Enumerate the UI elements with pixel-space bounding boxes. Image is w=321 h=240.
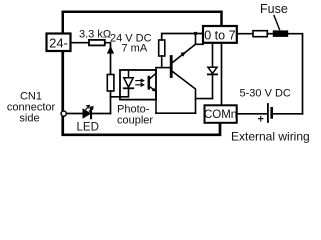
fuse pointer line (274, 16, 280, 30)
wire: 0to7 box to COMn box (221, 43, 223, 105)
svg-text:+: + (258, 114, 264, 126)
wire: 24- box to resistor (71, 42, 90, 44)
wire: fuse to right edge and down (288, 34, 302, 114)
svg-text:0 to 7: 0 to 7 (204, 28, 235, 42)
wire: module frame left vertical, bottom rail, rise to COMn box (63, 51, 220, 135)
transistor emitter diagonal to top rail (173, 44, 196, 62)
LED emission arrows (86, 105, 90, 109)
resistor R 3.3k body (89, 40, 105, 46)
photocoupler box (120, 70, 156, 100)
wire: below internal resistor down to LED row (110, 91, 112, 114)
svg-text:LED: LED (77, 122, 99, 134)
wire: base rail from photocoupler to transistor (156, 67, 170, 69)
photocoupler LED: wire from box top (128, 70, 130, 78)
wire: COMn to battery (237, 113, 268, 115)
transistor collector diagonal down (173, 72, 196, 114)
node: CN1 pin circle (61, 111, 66, 116)
LED indicator diode (83, 109, 90, 118)
fuse filled body (273, 30, 288, 37)
wire: branch to photocoupler LED cathode (111, 90, 129, 97)
wire: resistor to vertical drop (105, 43, 111, 75)
terminal box COMn (205, 105, 237, 123)
svg-text:side: side (19, 112, 39, 124)
diode D1 line from 0to7 box (212, 43, 214, 67)
resistor internal (vertical) (107, 75, 114, 92)
wire: LED to junction (91, 113, 111, 115)
wire: 0to7 box to fuse (237, 33, 253, 35)
photocoupler LED diode (124, 78, 133, 88)
light arrows (136, 79, 144, 82)
svg-text:5-30 V DC: 5-30 V DC (240, 88, 291, 100)
battery plates (267, 104, 269, 122)
svg-text:7 mA: 7 mA (122, 43, 148, 55)
svg-text:coupler: coupler (117, 115, 153, 127)
phototransistor collector (150, 68, 157, 79)
wire: branch to diode bottom (196, 98, 213, 100)
junction dot (194, 32, 198, 36)
phototransistor bar (148, 77, 151, 88)
wire: node to LED (67, 113, 84, 115)
diode D1 (208, 67, 217, 73)
wire: module frame top rail and drop to 0to7 box (63, 12, 222, 34)
I/O box 0 to 7 (203, 26, 237, 43)
svg-text:Fuse: Fuse (260, 2, 288, 16)
svg-text:3.3 kΩ: 3.3 kΩ (79, 28, 111, 40)
transistor Q1 bar (170, 57, 173, 77)
svg-text:COMn: COMn (204, 109, 237, 121)
internal pull resistor from +rail (162, 34, 203, 41)
phototransistor emitter (150, 86, 157, 113)
terminal box 24- (47, 26, 237, 123)
fuse holder open body (253, 31, 267, 37)
wire: phototransistor emitter to collector node (156, 112, 196, 114)
svg-text:External wiring: External wiring (231, 129, 310, 143)
svg-text:24-: 24- (49, 36, 68, 51)
wire: battery to right vertical (273, 113, 303, 115)
current arrow up (107, 46, 114, 54)
